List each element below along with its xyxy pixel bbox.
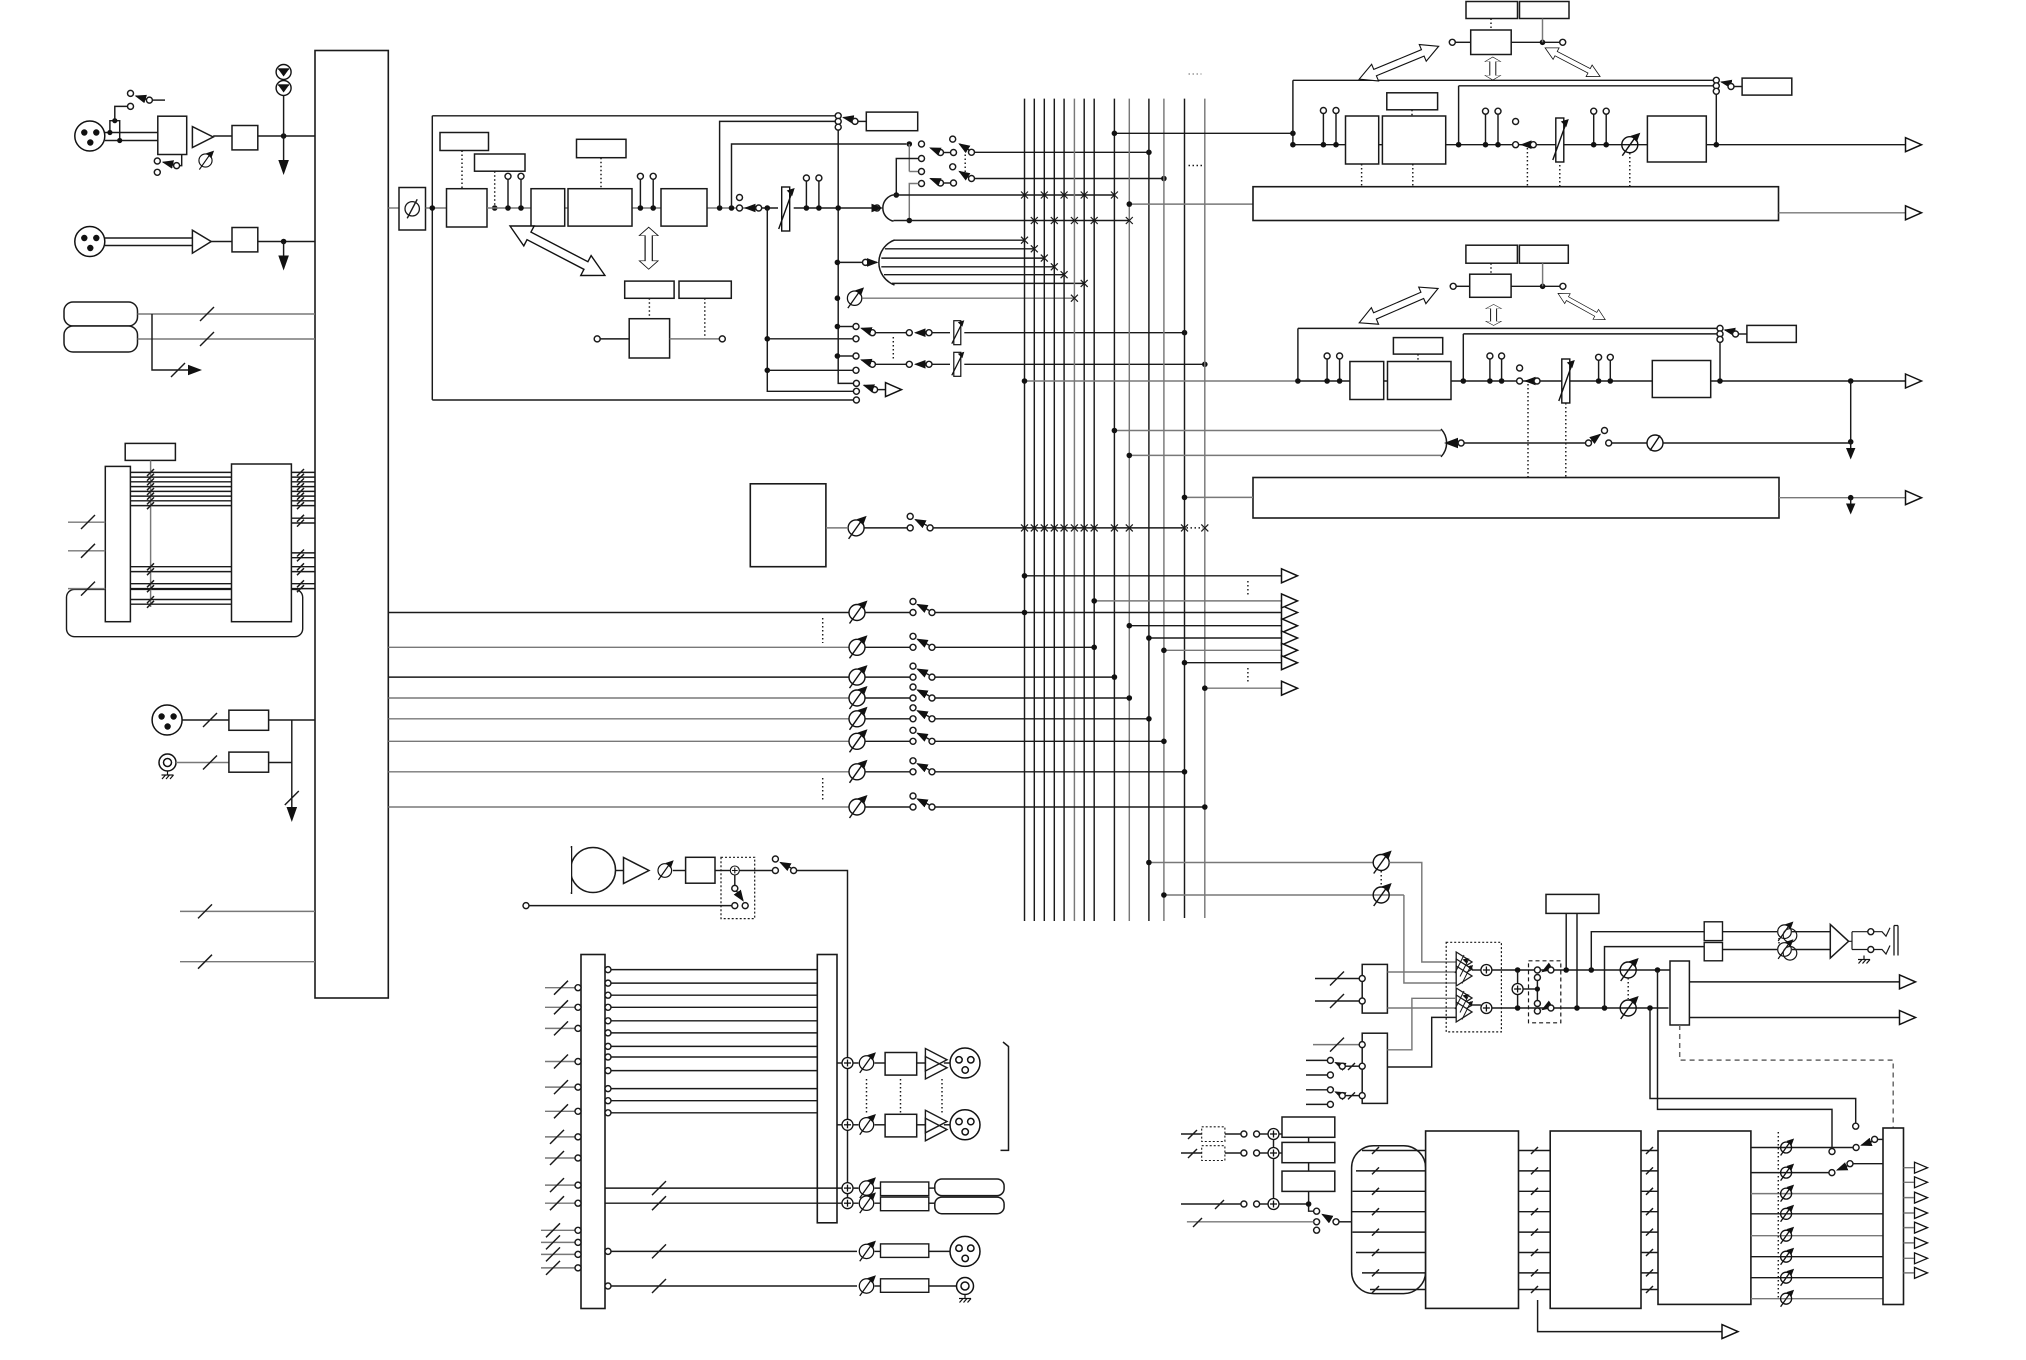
mono out block: [1652, 361, 1710, 398]
stereo bus pair to mono upper: [1114, 430, 1441, 432]
MONO bus wire B: [1463, 333, 1717, 335]
slash branch down: [285, 791, 299, 805]
junction bus14 aux2: [1202, 362, 1208, 368]
bus column 10: [1128, 99, 1130, 921]
out2 box: [885, 1114, 917, 1137]
wire 2tr to knob: [1612, 442, 1647, 444]
insert selector arrow: [844, 118, 852, 120]
ch3 sw upper: [910, 663, 916, 669]
ST R bus wire: [894, 220, 1130, 222]
tb out switch contact L: [772, 868, 778, 874]
talkback dotted box: [721, 857, 755, 918]
meter1 out wire: [1779, 212, 1906, 214]
DA label box 3: [1282, 1171, 1335, 1191]
DA bus fan slashes: [1372, 1147, 1379, 1293]
ch3 line to bus: [935, 676, 1114, 678]
st block 1: [1346, 116, 1379, 164]
ch8 sw upper: [910, 793, 916, 799]
wire to rec2 box: [853, 1202, 881, 1204]
mono label above: [1393, 338, 1442, 355]
bus out row 1: [837, 1048, 980, 1079]
DA knob 7: [1781, 1269, 1795, 1286]
aux2 on contact L: [906, 361, 912, 367]
junction 2b: [650, 205, 656, 211]
pan switch C contacts: [938, 180, 944, 186]
wire sum to knob: [853, 1062, 859, 1064]
ch7 line to bus: [935, 771, 1185, 773]
insert loop top wire: [432, 115, 835, 117]
phones riser L: [1591, 932, 1704, 970]
mix switch upper contact: [907, 513, 913, 519]
wire sum to switch: [739, 870, 772, 872]
DA knob 5: [1781, 1227, 1795, 1244]
option slot frame: [67, 589, 303, 636]
ellipsis crossbar top: [1189, 73, 1202, 75]
box A input 1: [1315, 978, 1359, 980]
label drops: [1566, 913, 1577, 1008]
wire post 2: [767, 369, 853, 371]
wire LED stack: [283, 96, 285, 137]
dotted link mono label: [1417, 354, 1419, 361]
DA out row 3: [1751, 1193, 1883, 1195]
channel line 4: [388, 697, 849, 699]
ellipsis crossbar cols: [1189, 165, 1204, 167]
wire knob to box: [875, 1124, 886, 1126]
dotted link ATT: [494, 171, 496, 205]
dotted link st label: [1411, 110, 1413, 116]
omni out stubs: [1904, 1168, 1914, 1273]
bracket outputs: [1001, 1042, 1009, 1150]
insert contact left: [737, 205, 743, 211]
junction mono b: [1461, 378, 1467, 384]
monitor out R arrow: [1900, 1011, 1916, 1025]
DA out row 8: [1751, 1298, 1883, 1300]
wire ch3 knob to sw: [865, 676, 910, 678]
aux2 wiper: [869, 361, 875, 367]
mono scene box: [1470, 274, 1511, 297]
slash bus A: [200, 307, 214, 321]
DA in contacts 1: [1241, 1131, 1247, 1137]
dotted gang aux masters: [1380, 871, 1382, 886]
junction pre rail on line: [835, 205, 841, 211]
junction post-dsp tap: [717, 205, 723, 211]
mix block: [750, 484, 826, 567]
wire aux master2 to monitor: [1404, 895, 1456, 983]
insert arrow: [746, 207, 753, 209]
monitor out row: [605, 1236, 980, 1266]
wire wiper to box: [180, 155, 182, 166]
wire rec1 from patch: [605, 1187, 842, 1189]
ST L bus wire: [894, 194, 1115, 196]
channel line 1: [388, 612, 849, 614]
wire aux2 to fader: [932, 363, 950, 365]
dotted link st fader: [1559, 165, 1561, 187]
mono block 1: [1350, 362, 1384, 400]
mono blend vertical: [1517, 970, 1519, 1008]
ch5 sw arm: [918, 711, 930, 717]
slash mon: [652, 1244, 666, 1258]
junction aux6 col13: [1182, 660, 1188, 666]
dotted link st knob: [1629, 153, 1631, 187]
wire to rec1 box: [853, 1187, 881, 1189]
junction monoR: [1515, 1005, 1521, 1011]
wire aux1 to bus13: [964, 332, 1184, 334]
card bus lines group1: [130, 472, 231, 505]
big double arrow EQ-lib: [505, 216, 610, 285]
ST insert return riser: [1715, 94, 1717, 144]
double arrow mono mid: [1486, 304, 1502, 325]
phones box 2: [1704, 943, 1722, 961]
ch5 sw upper: [910, 705, 916, 711]
card bus lines group2: [130, 567, 231, 605]
aux2 on arrow: [916, 363, 923, 365]
stem wire 1b: [520, 179, 522, 208]
monitor label box: [1546, 894, 1599, 913]
aux out 7: [1205, 687, 1282, 689]
omni contact A: [1829, 1149, 1835, 1155]
XLR input CH1: [75, 121, 105, 151]
pan switch B top contact: [950, 136, 956, 142]
2tr switch arm: [1592, 435, 1601, 442]
aux bus lines: [881, 240, 1084, 283]
junction mon L out: [1655, 967, 1661, 973]
meter2 out arrow: [1906, 491, 1922, 505]
direct wiper arm: [864, 385, 872, 388]
tb out switch contact R: [791, 868, 797, 874]
wire sum down: [734, 875, 736, 885]
insert return riser: [838, 130, 853, 383]
DA knob 3: [1781, 1185, 1795, 1202]
monitor sum dotted box: [1446, 942, 1501, 1032]
ch4 level knob: [849, 686, 868, 709]
wire pre 2: [837, 355, 853, 357]
arrow branch: [188, 365, 202, 376]
tb out switch upper: [772, 856, 778, 862]
ch2 sw contacts: [910, 644, 916, 650]
junction col10 meter: [1127, 201, 1133, 207]
out arrow ch1: [1282, 606, 1298, 620]
mix switch contact: [907, 525, 913, 531]
junction aux master2 col12: [1161, 892, 1167, 898]
rec1 box: [881, 1182, 929, 1196]
rec2 jack: [935, 1197, 1004, 1214]
2TR IN jack A: [64, 302, 138, 326]
ch1 sw upper: [910, 599, 916, 605]
channel line 7: [388, 771, 849, 773]
aux in jack TRS: [159, 754, 176, 771]
DA in contacts 3: [1241, 1201, 1247, 1207]
DA dashed input box 2: [1202, 1146, 1225, 1161]
ch7 sw upper: [910, 758, 916, 764]
ST insert label box: [1742, 78, 1792, 95]
aux1 post tap: [765, 336, 771, 342]
wire direct to arrow: [878, 389, 885, 391]
junction 3b: [816, 205, 822, 211]
wire width to bus: [863, 297, 1075, 299]
pan switch A contacts: [938, 150, 944, 156]
aux crescent input dot: [835, 260, 841, 266]
junction ch1 col1: [1022, 610, 1028, 616]
junction CH1 cold: [117, 138, 122, 143]
DA monitor input line: [1187, 1221, 1314, 1223]
box B out 2: [1387, 1017, 1456, 1067]
card stubs to block: [291, 472, 315, 588]
mix switch out contact: [927, 525, 933, 531]
junction ch6 col12: [1161, 739, 1167, 745]
channel line 2: [388, 646, 849, 648]
channel fader: [779, 187, 795, 231]
monitor out line L: [1689, 981, 1899, 983]
junction meter2 col13: [1182, 495, 1188, 501]
junction ch8 col14: [1202, 804, 1208, 810]
dotted link lib2: [704, 298, 706, 339]
omni sw 1 contact: [1853, 1145, 1859, 1151]
junction ch3 col9: [1112, 674, 1118, 680]
stem wire 1a: [507, 179, 509, 208]
wire sum2 to label2: [1279, 1152, 1282, 1154]
slash branch: [171, 363, 185, 377]
DA out row 1: [1751, 1147, 1853, 1149]
mon switch R: [1534, 1008, 1540, 1014]
slash input 2: [81, 544, 95, 558]
ST bus wire B: [1459, 85, 1714, 87]
DA sum 2: [1268, 1148, 1279, 1159]
DA knob 6: [1781, 1248, 1795, 1265]
dashed control line: [1680, 1025, 1894, 1128]
ch8 level knob: [849, 795, 868, 818]
wire 2tr line: [1464, 442, 1585, 444]
monitor sum L triangles: [1455, 952, 1473, 986]
sum out1: [842, 1058, 853, 1069]
phones knob: [859, 1275, 876, 1296]
junction sum3 riser: [1306, 1201, 1312, 1207]
ch1 sw contacts: [910, 610, 916, 616]
aux2 fader: [952, 352, 965, 377]
wire CH2 balanced pair: [105, 238, 193, 246]
ch6 line to bus: [935, 740, 1164, 742]
DA out row 7: [1751, 1277, 1883, 1279]
wire mono scene in: [1456, 285, 1470, 287]
monitor knob R: [1620, 996, 1639, 1019]
block AD converter: [447, 189, 488, 227]
wire mic to amp: [616, 870, 624, 872]
box B input top: [1313, 1044, 1359, 1046]
ch3 sw contacts: [910, 674, 916, 680]
stub slashes II-III: [1646, 1147, 1653, 1293]
switch phantom contact A: [128, 90, 134, 96]
wire pan2 to Lbus: [896, 159, 918, 196]
wire aux jack: [176, 762, 229, 764]
ground headphone: [1858, 956, 1870, 964]
pan cluster feed dot: [907, 141, 913, 147]
wire driver to xlr: [944, 1062, 950, 1064]
junction phones tap L: [1589, 967, 1595, 973]
direct pdsp contact: [853, 397, 859, 403]
junction 1a: [505, 205, 511, 211]
wire ch1 knob to sw: [865, 612, 910, 614]
junction pair col10: [1127, 453, 1133, 459]
phones out contacts: [1868, 929, 1874, 935]
wire insert to fader: [762, 207, 778, 209]
wire 2TR branch down: [152, 314, 192, 370]
box B arm 1: [1336, 1063, 1340, 1065]
stem wire 2a: [639, 179, 641, 208]
mon switch mid contacts: [1534, 975, 1540, 981]
talkback sum: [730, 866, 739, 875]
ground phones: [959, 1295, 971, 1303]
mono scene in contact: [1450, 283, 1456, 289]
arrow into ST sum: [880, 207, 882, 209]
dotted link mono fader: [1565, 403, 1567, 478]
pan contact 1: [919, 141, 925, 147]
phones jack: [957, 1278, 974, 1295]
mono stem 3b: [1607, 354, 1613, 360]
mono stem 3a: [1596, 354, 1602, 360]
head amp box CH1: [158, 116, 187, 154]
DA in contacts 2: [1241, 1150, 1247, 1156]
junction 2tr: [1848, 439, 1854, 445]
st feed line col9: [1114, 132, 1293, 134]
riser post-dsp: [720, 121, 835, 208]
card cage left connector: [105, 466, 130, 621]
ST top label box 1: [1466, 2, 1518, 19]
aux out 2: [1094, 600, 1281, 602]
wire scene out: [1511, 41, 1560, 43]
junction pan-tap: [729, 205, 735, 211]
bus column 2: [1033, 99, 1035, 921]
phones amp: [1830, 925, 1848, 959]
dotted link top1: [1490, 19, 1492, 31]
main patch block: [315, 51, 388, 999]
omni sw 2 arm: [1837, 1166, 1847, 1170]
patch left box: [581, 955, 605, 1309]
pad bracket CH1: [110, 121, 120, 141]
wire scene to box2: [1542, 19, 1544, 43]
box B out 1: [1387, 998, 1456, 1050]
ch4 sw upper: [910, 684, 916, 690]
dotted ellipsis aux rows: [892, 337, 894, 359]
wire ch8 knob to sw: [865, 806, 910, 808]
meter feed col10: [1129, 203, 1253, 205]
2tr knob: [1647, 435, 1663, 451]
monitor knob L: [1620, 958, 1639, 981]
mono top label box 1: [1466, 245, 1518, 263]
box B stub 4: [1306, 1103, 1327, 1105]
junction aux2 col8: [1091, 598, 1097, 604]
aux out 5: [1164, 649, 1282, 651]
slash phones: [652, 1279, 666, 1293]
ST bus sum crescent: [883, 195, 894, 221]
wire aux in: [182, 719, 229, 721]
dotted ellipsis aux outs a: [1247, 581, 1249, 596]
DA out row 5: [1751, 1235, 1883, 1237]
wire tb to bus riser: [797, 871, 848, 1204]
aux send row 2 pre tap: [835, 353, 841, 359]
ch1 level knob: [849, 601, 868, 624]
out1 box: [885, 1053, 917, 1076]
junction aux1 col1: [1022, 573, 1028, 579]
direct wiper: [872, 387, 878, 393]
arrow meter CH2: [278, 256, 289, 271]
2tr switch upper: [1602, 428, 1608, 434]
talkback mic bar: [571, 846, 573, 894]
patch right box: [817, 955, 837, 1223]
mix bus wire: [933, 527, 1184, 529]
riser pan feed: [732, 144, 907, 208]
pan switch A arm: [931, 148, 939, 151]
mon box: [881, 1244, 929, 1258]
meter1 out arrow: [1906, 206, 1922, 220]
monitor out block: [1670, 961, 1689, 1025]
st stem 2a: [1483, 108, 1489, 114]
scene out contact: [1560, 39, 1566, 45]
ch3 level knob: [849, 665, 868, 688]
wire rec1 to jack: [929, 1187, 935, 1189]
post-fader rail: [767, 208, 853, 391]
wire ch4 knob to sw: [865, 697, 910, 699]
stem wire 2b: [652, 179, 654, 208]
out arrow aux1: [1282, 569, 1298, 583]
label links: [1309, 1137, 1314, 1211]
phase glyph: [405, 199, 419, 218]
meter2 feed from col13: [1185, 496, 1254, 498]
monitor sum R triangles: [1455, 988, 1473, 1022]
aux1 wiper: [869, 330, 875, 336]
pan out L contact: [969, 149, 975, 155]
phones wire R: [1723, 949, 1778, 951]
wire knob to switch: [864, 527, 907, 529]
st stem 3a: [1591, 108, 1597, 114]
ST insert wiper contact: [1728, 84, 1734, 90]
dotted ellipsis ch rows b: [822, 778, 824, 802]
mono insert selector arrow: [1725, 330, 1733, 332]
mono insert label box: [1747, 325, 1796, 342]
out2 knob: [859, 1114, 876, 1135]
label box EQlib: [625, 281, 674, 298]
ST riser B: [1458, 86, 1460, 145]
aux input arrow: [869, 261, 877, 263]
ch6 sw arm: [918, 733, 930, 739]
wire aux jack to branch: [269, 762, 292, 764]
strip main line: [487, 207, 750, 209]
phase width knob: [847, 287, 864, 308]
wire pan out R: [975, 178, 1164, 180]
wire ch5 knob to sw: [865, 718, 910, 720]
omni out triangles: [1915, 1162, 1928, 1173]
ch2 sw upper: [910, 633, 916, 639]
LED meter 1: [276, 65, 291, 80]
junction 1b: [518, 205, 524, 211]
headphone plug tip: [1874, 928, 1890, 937]
aux out 6: [1185, 662, 1282, 664]
junction st b: [1456, 142, 1462, 148]
2TR IN jack B: [64, 326, 138, 352]
sum chain verticals: [1273, 1140, 1275, 1199]
st stem 2b: [1495, 108, 1501, 114]
wire box to sum: [715, 870, 730, 872]
wire aux master1 to monitor: [1389, 863, 1456, 963]
DA select contact mid: [1314, 1219, 1320, 1225]
mono stem 2b: [1499, 353, 1505, 359]
aux2 pre contact: [853, 353, 859, 359]
junction tb riser out1: [846, 1056, 848, 1058]
ST bus wire A: [1293, 79, 1713, 81]
wire to ST sum: [874, 205, 880, 211]
junction post rail tap: [765, 205, 771, 211]
wire rec2 from patch: [605, 1202, 842, 1204]
channel line 8: [388, 806, 849, 808]
wire mon from patch: [605, 1248, 611, 1254]
